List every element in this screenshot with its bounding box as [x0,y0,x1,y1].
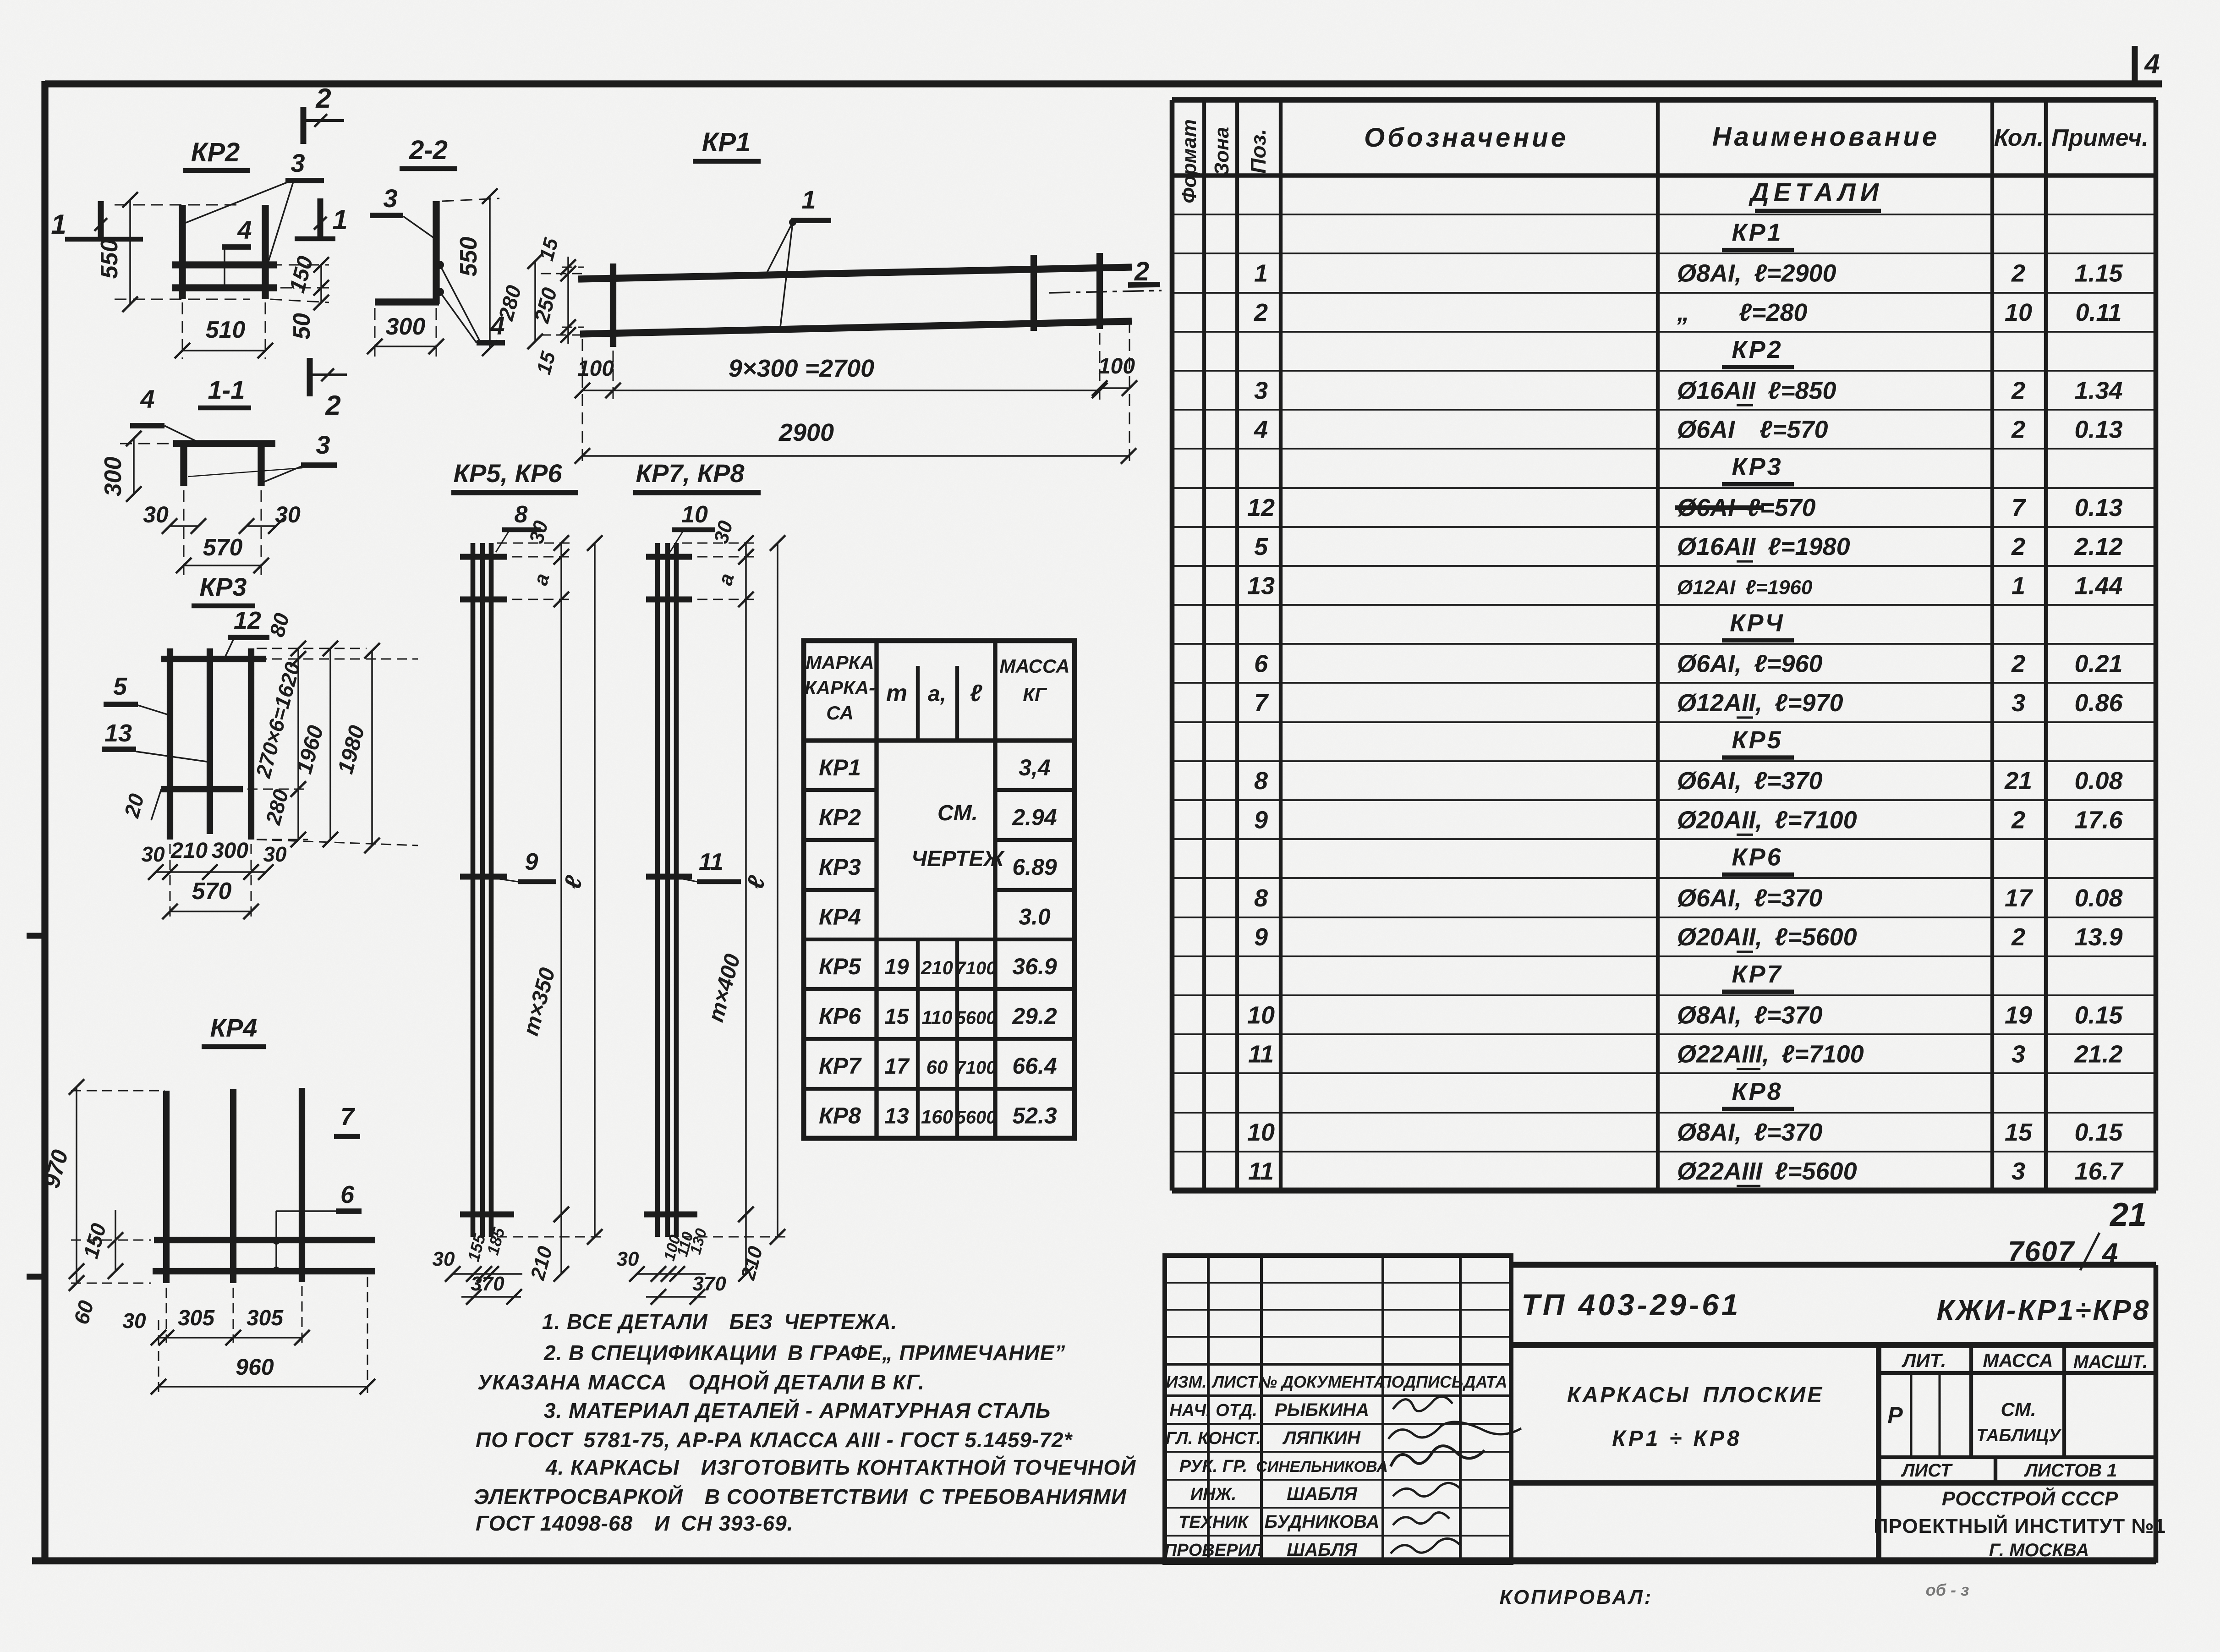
svg-text:4: 4 [140,384,154,413]
svg-text:Кол.: Кол. [1994,125,2044,151]
svg-text:3: 3 [1254,377,1268,404]
2-2 horizontal bar (poz.4) [375,298,439,305]
svg-text:0.15: 0.15 [2074,1001,2123,1029]
KR2 dim 150 right [270,253,329,296]
svg-text:Ø6АI, ℓ=370: Ø6АI, ℓ=370 [1677,767,1823,795]
KR2 horizontal bar bottom (poz.4) [172,284,277,291]
svg-text:КР2: КР2 [191,137,240,167]
svg-text:3: 3 [316,430,330,459]
KR3 dim 1980 [257,643,418,853]
svg-text:Ø8АI, ℓ=370: Ø8АI, ℓ=370 [1677,1001,1823,1029]
svg-text:КАРКА-: КАРКА- [805,677,875,698]
section mark 1 left of KR2 [51,201,143,240]
KR3 horizontal bar lower (poz.12) [161,786,243,792]
svg-text:ТЕХНИК: ТЕХНИК [1179,1513,1250,1532]
svg-text:Г. МОСКВА: Г. МОСКВА [1989,1540,2089,1560]
svg-text:9: 9 [1254,923,1268,951]
svg-text:30: 30 [263,842,287,866]
KR1 crossbar right B (poz.2) [1096,253,1103,329]
svg-text:МАССА: МАССА [999,655,1069,677]
specification table headers [1178,119,2149,203]
title block texts [1521,1288,2165,1560]
svg-text:2900: 2900 [778,419,834,446]
svg-text:1.44: 1.44 [2074,572,2122,599]
svg-text:30: 30 [617,1248,639,1270]
signature squiggles [1388,1397,1521,1553]
svg-text:2.12: 2.12 [2074,533,2122,560]
2-2 dim 550 right [442,188,499,356]
svg-text:30: 30 [143,502,169,527]
svg-text:10: 10 [1247,1001,1275,1029]
svg-text:ПРОВЕРИЛ: ПРОВЕРИЛ [1164,1541,1263,1560]
svg-text:КР1 ÷ КР8: КР1 ÷ КР8 [1612,1427,1742,1451]
svg-text:2: 2 [2011,260,2025,287]
svg-text:1.15: 1.15 [2074,260,2123,287]
KR2 position label 3 with leaders [182,148,324,269]
svg-text:13: 13 [1247,572,1275,599]
KR1 dim row 100 / 9x300=2700 / 100 [575,321,1137,465]
svg-text:КР7: КР7 [819,1053,862,1079]
KR4 position label 7 [334,1103,360,1136]
KR4 dim 60 left [69,1263,151,1327]
KR7 position label 10 top [670,501,715,552]
svg-text:550: 550 [455,237,482,277]
svg-text:100: 100 [577,357,614,381]
svg-text:5600: 5600 [956,1008,997,1028]
svg-text:Ø6АI, ℓ=960: Ø6АI, ℓ=960 [1677,650,1823,678]
svg-text:30: 30 [433,1248,455,1270]
svg-text:МАРКА: МАРКА [806,652,874,673]
svg-text:30: 30 [141,842,165,866]
1-1 position label 4 [130,384,199,443]
KR4 position label 6 with step leader [273,1181,362,1274]
KR3 position label 5 [104,673,169,715]
svg-text:m: m [886,680,907,707]
KR5 crossbar middle (poz.9) [460,874,507,880]
KR7 longitudinal rod 1 [655,543,660,1237]
svg-text:ИНЖ.: ИНЖ. [1190,1485,1237,1504]
svg-text:570: 570 [203,534,243,561]
svg-text:ПРОЕКТНЫЙ ИНСТИТУТ №1: ПРОЕКТНЫЙ ИНСТИТУТ №1 [1874,1514,2166,1537]
svg-text:0.86: 0.86 [2074,689,2123,717]
KR3 dim 20 bottom left [120,789,161,820]
KR2 dim 550 vertical left [96,192,250,312]
svg-text:510: 510 [206,317,246,343]
KR1 long bar top (poz.1) [578,267,1132,279]
KR3 dim 1960 [257,641,367,847]
svg-text:КГ: КГ [1023,684,1047,705]
KR5 position label 8 top [496,501,541,552]
KR2 dim 510 bottom [175,302,273,359]
svg-text:570: 570 [192,878,232,905]
svg-text:Ø12АI ℓ=1960: Ø12АI ℓ=1960 [1677,576,1813,598]
svg-text:5: 5 [113,673,127,700]
svg-text:1: 1 [801,185,816,214]
KR5 dim m x 350 inner column [519,599,569,1222]
KR5 dim l overall right [497,535,605,1245]
svg-text:ЧЕРТЕЖ: ЧЕРТЕЖ [911,847,1005,871]
svg-text:8: 8 [1254,767,1268,795]
mass table rows [819,755,1057,1129]
svg-text:Обозначение: Обозначение [1364,123,1568,153]
svg-text:1: 1 [332,204,347,235]
2-2 position label 4 with leaders [436,261,505,343]
KR4 vertical bar 1 (poz.7) [163,1091,170,1283]
svg-text:11: 11 [1248,1158,1274,1185]
svg-text:3. МАТЕРИАЛ ДЕТАЛЕЙ - АРМАТУРН: 3. МАТЕРИАЛ ДЕТАЛЕЙ - АРМАТУРНАЯ СТАЛЬ [544,1399,1051,1422]
svg-text:Формат: Формат [1178,119,1200,203]
svg-text:9: 9 [1254,806,1268,834]
2-2 position label 3 [370,184,434,238]
KR3 dim 80 top right [265,610,306,667]
svg-text:ЛЯПКИН: ЛЯПКИН [1282,1428,1361,1448]
svg-text:1. ВСЕ ДЕТАЛИ БЕЗ ЧЕРТЕЖА.: 1. ВСЕ ДЕТАЛИ БЕЗ ЧЕРТЕЖА. [542,1310,897,1334]
svg-text:Наименование: Наименование [1712,122,1940,152]
svg-text:5: 5 [1254,533,1268,560]
svg-text:Поз.: Поз. [1246,129,1270,173]
svg-text:Ø22АIII, ℓ=7100: Ø22АIII, ℓ=7100 [1677,1041,1864,1068]
KR4 dim 970 left [38,1079,165,1291]
svg-text:2. В СПЕЦИФИКАЦИИ В ГРАФЕ„ ПРИ: 2. В СПЕЦИФИКАЦИИ В ГРАФЕ„ ПРИМЕЧАНИЕ” [543,1341,1065,1365]
section mark 2 bottom of KR2 [310,358,347,421]
svg-text:РЫБКИНА: РЫБКИНА [1275,1400,1369,1420]
svg-text:7100: 7100 [956,1058,997,1078]
svg-text:КР5: КР5 [1732,726,1782,754]
KR5 bottom dims 30 155 185 370 210 [433,1207,569,1305]
svg-text:19: 19 [2005,1001,2032,1029]
specification table rows [1247,177,2124,1186]
svg-text:КР1: КР1 [702,127,751,157]
KR7 bottom dims 30 100 110 130 370 210 [617,1207,767,1305]
svg-text:ЛИСТОВ 1: ЛИСТОВ 1 [2024,1460,2117,1481]
view KR1 title [693,127,761,161]
svg-text:3: 3 [2012,689,2025,717]
svg-text:6: 6 [1254,650,1268,678]
svg-text:КР5, КР6: КР5, КР6 [454,459,563,488]
svg-text:1.34: 1.34 [2074,377,2122,404]
svg-text:7100: 7100 [956,958,997,978]
KR5 crossbar top 1 [460,554,507,560]
svg-text:КР3: КР3 [1732,453,1782,481]
svg-text:7: 7 [2012,494,2027,521]
svg-text:Ø16АII ℓ=850: Ø16АII ℓ=850 [1677,377,1836,404]
KR5 crossbar top 2 [460,597,507,603]
svg-text:2: 2 [325,390,340,421]
view KR2 title [183,137,250,170]
svg-text:2.94: 2.94 [1012,804,1057,830]
svg-text:МАССА: МАССА [1983,1350,2053,1371]
svg-text:15: 15 [2005,1119,2033,1146]
svg-text:0.13: 0.13 [2074,416,2122,443]
svg-text:0.15: 0.15 [2074,1119,2123,1146]
svg-text:Ø20АII, ℓ=5600: Ø20АII, ℓ=5600 [1677,923,1857,951]
svg-text:13: 13 [884,1104,909,1128]
KR1 dims 15 280 250 15 left end [493,236,584,377]
KR5 longitudinal rod 2 [480,543,485,1237]
svg-text:1: 1 [2012,572,2025,599]
svg-text:КР5: КР5 [819,954,861,979]
KR4 dim 150 left [78,1210,123,1279]
view 1-1 title [198,375,251,408]
svg-text:ГОСТ 14098-68 И СН 393-69.: ГОСТ 14098-68 И СН 393-69. [476,1511,793,1535]
svg-text:УКАЗАНА МАССА ОДНОЙ ДЕТАЛИ В К: УКАЗАНА МАССА ОДНОЙ ДЕТАЛИ В КГ. [477,1370,925,1394]
KR2 horizontal bar top (poz.4) [172,261,277,268]
svg-text:ЛИСТ: ЛИСТ [1901,1460,1953,1481]
svg-text:110: 110 [922,1006,953,1028]
svg-text:2: 2 [2011,416,2025,443]
svg-text:16.7: 16.7 [2074,1158,2124,1185]
KR7 crossbar middle (poz.11) [646,874,692,880]
svg-text:9: 9 [525,849,538,875]
KR3 position label 12 [225,607,269,656]
KR7 dims 30 and a1 right [682,518,757,607]
svg-text:об - з: об - з [1926,1581,1969,1599]
svg-text:100: 100 [1098,354,1135,379]
svg-text:9×300 =2700: 9×300 =2700 [729,355,874,382]
svg-text:13: 13 [104,719,132,747]
sheet number mark top right [2135,46,2160,83]
svg-text:210: 210 [170,839,208,863]
svg-text:КР4: КР4 [210,1013,258,1042]
svg-text:ГЛ. КОНСТ.: ГЛ. КОНСТ. [1166,1429,1261,1448]
svg-text:210: 210 [921,957,953,978]
KR7 crossbar top 2 [646,597,692,603]
svg-text:КР1: КР1 [1732,219,1782,247]
svg-text:№ ДОКУМЕНТА: № ДОКУМЕНТА [1258,1372,1386,1391]
1-1 dims 30 570 30 bottom [143,490,301,575]
fold mark ticks on left border [27,936,46,1277]
svg-text:10: 10 [681,501,708,528]
svg-text:2: 2 [1254,299,1268,326]
svg-text:3: 3 [291,148,305,177]
svg-text:36.9: 36.9 [1012,954,1057,979]
signature table texts [1164,1372,1507,1560]
KR3 vertical bar 2 (poz.13) [207,648,213,834]
svg-text:1: 1 [1254,260,1268,287]
KR3 vertical bar 3 (poz.5) [248,648,254,840]
svg-text:КР6: КР6 [1732,844,1782,871]
KR7 dim l overall right [682,535,788,1245]
1-1 hook bar right (poz.3) [258,444,264,486]
section mark 2 top of KR2 [303,83,344,144]
svg-text:21: 21 [2004,767,2032,795]
svg-text:550: 550 [96,239,123,279]
KR2 dim 50 right [270,280,329,340]
svg-text:19: 19 [884,955,909,979]
view KR7 KR8 title [633,459,761,493]
svg-text:Ø20АII, ℓ=7100: Ø20АII, ℓ=7100 [1677,806,1857,834]
svg-text:17: 17 [2005,884,2034,912]
svg-text:300: 300 [386,313,426,340]
svg-text:11: 11 [1248,1041,1274,1068]
svg-text:КР8: КР8 [819,1103,861,1128]
svg-text:4. КАРКАСЫ ИЗГОТОВИТЬ КОНТАКТН: 4. КАРКАСЫ ИЗГОТОВИТЬ КОНТАКТНОЙ ТОЧЕЧНО… [545,1455,1136,1479]
svg-text:2: 2 [2011,650,2025,678]
KR1 position label 1 with leaders [765,185,831,331]
view 2-2 title [400,135,457,169]
svg-text:МАСШТ.: МАСШТ. [2073,1352,2148,1372]
KR4 horizontal bar bottom (poz.6) [153,1268,375,1274]
svg-text:СА: СА [826,702,854,724]
svg-text:6.89: 6.89 [1012,854,1057,880]
KR3 dims 30 210 300 30 bottom [141,839,287,917]
svg-text:ЛИСТ: ЛИСТ [1211,1372,1258,1391]
svg-text:6: 6 [340,1181,355,1208]
svg-text:13.9: 13.9 [2074,923,2122,951]
svg-text:КР7: КР7 [1732,960,1782,988]
svg-text:ЛИТ.: ЛИТ. [1902,1350,1946,1371]
svg-text:370: 370 [471,1273,504,1295]
KR2 vertical bar right (poz.3) [262,205,269,299]
svg-text:Ø16АII ℓ=1980: Ø16АII ℓ=1980 [1677,533,1850,560]
svg-text:960: 960 [236,1354,274,1380]
KR3 dim column 270x6=1620 / 280 [247,651,308,847]
svg-text:3,4: 3,4 [1019,755,1051,780]
KR5 crossbar bottom [460,1212,514,1218]
KR1 crossbar right A (poz.2) [1031,255,1037,331]
handwritten sheet notes 21 and 7607/4 [2008,1196,2147,1270]
svg-text:2-2: 2-2 [409,135,448,165]
svg-text:Ø8АI, ℓ=370: Ø8АI, ℓ=370 [1677,1119,1823,1146]
svg-text:0.21: 0.21 [2074,650,2122,678]
svg-text:КАРКАСЫ ПЛОСКИЕ: КАРКАСЫ ПЛОСКИЕ [1567,1383,1824,1407]
svg-text:а,: а, [928,682,946,706]
svg-text:КР4: КР4 [819,904,861,929]
svg-text:Зона: Зона [1211,127,1233,176]
KR3 vertical bar 1 (poz.5) [167,648,173,840]
1-1 hook bar left (poz.3) [180,444,187,486]
2-2 vertical bar (poz.3) [433,201,439,304]
svg-text:КР7, КР8: КР7, КР8 [636,459,745,488]
svg-text:4: 4 [237,215,252,244]
title block main box [1511,1265,2156,1563]
2-2 dim 300 bottom [367,308,444,362]
svg-text:КОПИРОВАЛ:: КОПИРОВАЛ: [1500,1586,1653,1608]
KR4 vertical bar 2 (poz.7) [230,1089,236,1283]
svg-text:Р: Р [1887,1402,1903,1428]
KR7 crossbar bottom [644,1212,697,1218]
svg-text:4: 4 [1254,416,1268,443]
svg-text:3: 3 [383,184,397,213]
svg-text:10: 10 [2005,299,2032,326]
svg-text:СМ.: СМ. [2001,1399,2036,1420]
svg-text:15: 15 [884,1004,910,1029]
svg-text:ДЕТАЛИ: ДЕТАЛИ [1749,177,1883,206]
svg-text:Ø8АI, ℓ=2900: Ø8АI, ℓ=2900 [1677,260,1836,287]
svg-text:0.11: 0.11 [2075,299,2121,326]
svg-text:8: 8 [1254,884,1268,912]
KR1 centre line and position label 2 right end [1049,257,1162,293]
svg-text:305: 305 [178,1306,215,1330]
svg-text:КР1: КР1 [819,755,861,780]
KR7 longitudinal rod 3 [674,543,679,1237]
specification table grid [1172,100,2156,1191]
svg-text:2: 2 [1134,257,1149,286]
KR3 position label 13 with leader [102,719,210,762]
svg-text:БУДНИКОВА: БУДНИКОВА [1265,1512,1380,1532]
svg-text:300: 300 [100,457,126,497]
mass table header [805,652,1070,724]
KR2 position label 4 with hook leader [221,215,252,291]
svg-text:30: 30 [275,502,301,527]
svg-text:КЖИ-КР1÷КР8: КЖИ-КР1÷КР8 [1937,1295,2151,1326]
KR2 vertical bar left (poz.3) [179,205,186,299]
KR5 dims 30 and a1 right [497,518,573,607]
svg-text:60: 60 [926,1056,948,1078]
svg-text:17: 17 [884,1054,910,1079]
svg-text:3: 3 [2012,1158,2025,1185]
svg-text:КР2: КР2 [1732,336,1782,363]
svg-text:21.2: 21.2 [2074,1041,2122,1068]
KR1 dim 2900 [575,419,1136,464]
KR4 dims 30 305 305 bottom [122,1286,310,1393]
svg-text:ПО ГОСТ 5781-75, АР-РА КЛАССА: ПО ГОСТ 5781-75, АР-РА КЛАССА АIII - ГОС… [476,1428,1073,1452]
svg-text:ДАТА: ДАТА [1463,1372,1507,1391]
svg-text:РОССТРОЙ СССР: РОССТРОЙ СССР [1942,1487,2118,1510]
svg-text:1: 1 [51,209,66,240]
svg-text:ТАБЛИЦУ: ТАБЛИЦУ [1976,1426,2062,1445]
1-1 position label 3 with leaders [188,430,337,482]
svg-text:52.3: 52.3 [1012,1103,1057,1128]
svg-text:КР3: КР3 [200,572,247,601]
svg-text:СИНЕЛЬНИКОВА: СИНЕЛЬНИКОВА [1256,1458,1388,1476]
svg-text:10: 10 [1247,1119,1275,1146]
svg-text:ЭЛЕКТРОСВАРКОЙ В СООТВЕТСТВИИ: ЭЛЕКТРОСВАРКОЙ В СООТВЕТСТВИИ С ТРЕБОВАН… [474,1485,1127,1509]
svg-text:50: 50 [289,313,315,340]
notes text block [474,1310,1136,1535]
svg-text:7: 7 [1254,689,1269,717]
title block signature table [1165,1256,1511,1563]
KR4 dim 960 bottom [151,1277,375,1394]
KR3 dim 570 bottom [162,878,259,919]
svg-text:17.6: 17.6 [2074,806,2123,834]
svg-text:30: 30 [122,1309,146,1333]
svg-text:КР2: КР2 [819,804,861,830]
KR7 dim m x 400 inner column [704,599,754,1222]
view KR4 title [202,1013,266,1047]
KR3 horizontal bar top (poz.12) [161,656,266,662]
svg-text:ШАБЛЯ: ШАБЛЯ [1287,1484,1357,1504]
svg-text:21: 21 [2109,1196,2147,1233]
svg-text:Ø6АI, ℓ=370: Ø6АI, ℓ=370 [1677,884,1823,912]
svg-text:160: 160 [921,1106,953,1127]
svg-text:300: 300 [212,839,248,863]
svg-text:0.08: 0.08 [2074,884,2122,912]
svg-text:Ø12АII, ℓ=970: Ø12АII, ℓ=970 [1677,689,1843,717]
svg-text:КРЧ: КРЧ [1730,609,1784,637]
svg-text:КР8: КР8 [1732,1078,1782,1105]
svg-text:Примеч.: Примеч. [2051,125,2149,151]
svg-text:НАЧ. ОТД.: НАЧ. ОТД. [1169,1401,1257,1420]
KR1 long bar bottom (poz.1) [580,321,1132,334]
KR4 vertical bar 3 (poz.7) [299,1088,305,1282]
svg-text:ℓ: ℓ [970,680,983,707]
bottom annotations [1500,1581,1969,1608]
svg-text:3.0: 3.0 [1019,904,1051,929]
KR4 horizontal bar top (poz.6) [154,1237,375,1243]
KR5 longitudinal rod 3 [489,543,494,1237]
svg-text:РУК. ГР.: РУК. ГР. [1179,1457,1248,1476]
svg-text:ТП 403-29-61: ТП 403-29-61 [1521,1288,1741,1322]
svg-text:ИЗМ.: ИЗМ. [1166,1372,1206,1391]
svg-text:12: 12 [234,607,261,634]
1-1 dim 300 left [100,431,183,502]
svg-text:0.08: 0.08 [2074,767,2122,795]
svg-text:0.13: 0.13 [2074,494,2122,521]
mass table grid [804,641,1074,1138]
KR5 position label 9 middle [493,849,556,882]
svg-text:ШАБЛЯ: ШАБЛЯ [1287,1540,1357,1560]
